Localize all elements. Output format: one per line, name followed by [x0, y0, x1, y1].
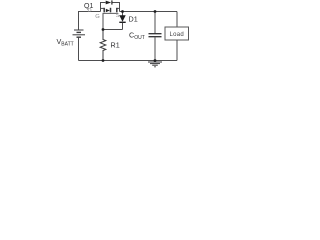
junction node COUT/top rail [154, 10, 157, 13]
Q1 body diode arrow [106, 1, 112, 5]
load box [165, 12, 189, 61]
resistor R1 [100, 30, 106, 61]
Q1 body arrow inside channel [106, 9, 110, 12]
svg-text:Load: Load [170, 32, 185, 38]
capacitor COUT [149, 12, 162, 61]
load top lead [176, 12, 178, 28]
D1 triangle [119, 15, 125, 21]
junction node ground/bottom rail [154, 59, 157, 62]
Q1 channel bar 1 [103, 8, 105, 13]
diode D1 [119, 12, 125, 30]
COUT top lead [154, 12, 156, 34]
wire top rail left [79, 12, 101, 30]
Q1 drain stub to channel [101, 7, 105, 9]
svg-text:S: S [116, 13, 120, 19]
svg-text:G: G [95, 14, 100, 20]
junction node R1/bottom rail [102, 59, 105, 62]
ground [148, 61, 162, 67]
transistor Q1 [101, 0, 120, 13]
D1 cathode bar [119, 21, 125, 23]
COUT bottom plate [149, 36, 162, 38]
battery VBATT [73, 30, 86, 37]
Q1 drain lead [101, 3, 106, 12]
D1 cathode lead [122, 23, 124, 30]
svg-text:D: D [88, 8, 92, 14]
junction node D1/top rail [121, 10, 124, 13]
wire gate node horizontal [103, 29, 123, 31]
Q1 channel bar 2 [110, 8, 112, 13]
svg-text:VBATT: VBATT [57, 37, 74, 48]
D1 anode lead [122, 12, 124, 16]
svg-text:D1: D1 [129, 15, 138, 24]
wire battery to bottom rail [78, 38, 80, 61]
wire gate down [102, 13, 104, 29]
Q1 source lead [112, 3, 119, 12]
COUT top plate [149, 33, 162, 35]
svg-text:COUT: COUT [129, 31, 145, 42]
svg-text:R1: R1 [111, 41, 120, 50]
wire bottom rail [79, 60, 178, 62]
COUT bottom lead [154, 37, 156, 60]
Q1 channel bar 3 [116, 8, 118, 13]
load bottom lead [176, 40, 178, 61]
wire top rail right [120, 11, 178, 13]
junction node gate/R1 [102, 28, 105, 31]
Q1 gate bar [103, 12, 119, 14]
Q1 source stub to channel [117, 7, 120, 9]
Q1 body diode bar [111, 0, 113, 4]
